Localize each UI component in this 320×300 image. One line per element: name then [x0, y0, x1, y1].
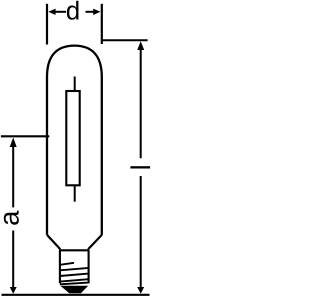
dimension line a lower segment with down arrow [12, 231, 14, 289]
dimension line l lower segment with down arrow [140, 176, 142, 288]
inner arc tube [66, 91, 79, 185]
label d [67, 1, 79, 20]
thread line 2 [60, 268, 89, 270]
label a (rotated 90deg) [4, 211, 19, 225]
base top edge [59, 249, 89, 251]
bulb neck taper left [47, 235, 60, 249]
baseline (reference plane at base bottom) [2, 294, 150, 296]
label l (rotated 90deg) [130, 166, 150, 168]
reference line left (light centre for a) [1, 135, 49, 137]
arc tube bottom electrode lead [74, 185, 76, 201]
thread line 3 [60, 274, 89, 276]
thread line 4 [60, 279, 89, 281]
arc tube top electrode lead [74, 77, 76, 92]
thread line 5 (shell bottom rim) [60, 283, 89, 285]
extension line right (diameter d) [101, 4, 103, 44]
reference line top right (lamp top for l) [102, 39, 148, 41]
base shell left wall [59, 250, 61, 283]
thread line 1 (partial) [60, 263, 74, 265]
base shell right wall [88, 250, 90, 283]
bulb outer envelope (tubular with domed top) [47, 46, 102, 235]
dimension line l upper segment with up arrow [137, 41, 144, 50]
contact tip (filled) [60, 286, 88, 294]
extension line left (diameter d) [46, 4, 48, 45]
dimension arrow d right [93, 9, 100, 15]
dimension arrow d left [48, 9, 55, 15]
dimension line a upper segment with up arrow [10, 138, 17, 148]
bulb neck taper right [88, 235, 102, 249]
